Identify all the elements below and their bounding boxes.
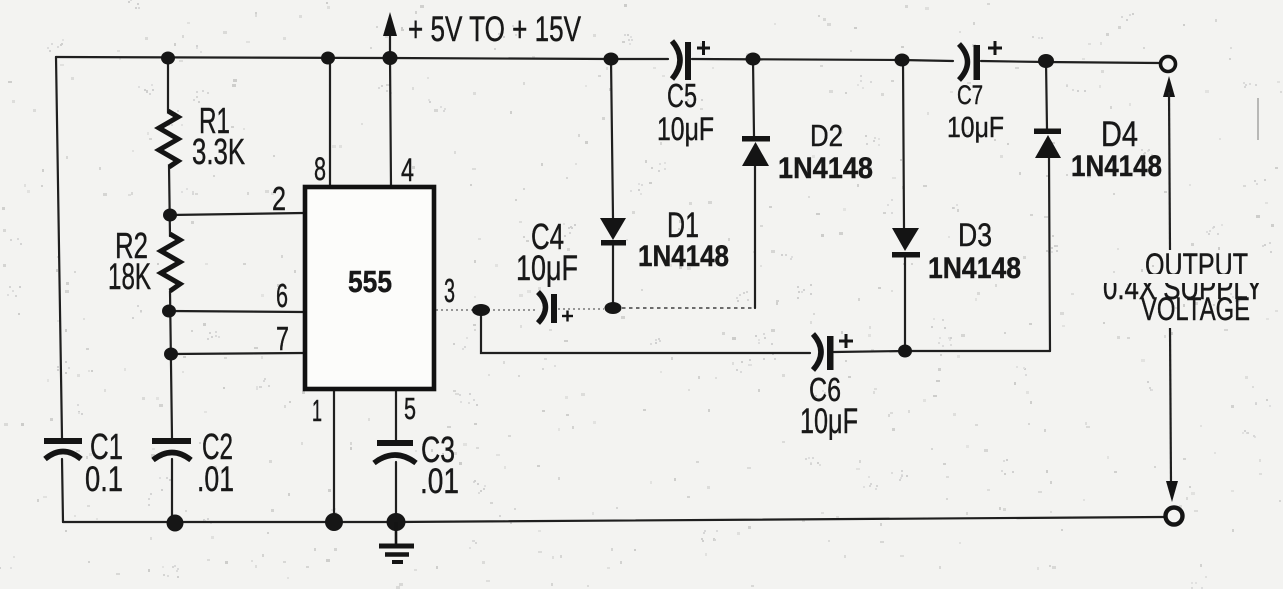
svg-text:C5: C5 [667, 77, 697, 114]
svg-text:8: 8 [314, 151, 326, 187]
svg-text:4: 4 [401, 152, 414, 188]
svg-text:.01: .01 [197, 460, 234, 499]
svg-text:6: 6 [276, 277, 288, 314]
svg-text:D2: D2 [810, 118, 843, 153]
svg-text:555: 555 [348, 264, 392, 299]
svg-text:2: 2 [272, 180, 286, 217]
svg-text:1N4148: 1N4148 [928, 252, 1021, 285]
svg-text:.01: .01 [420, 462, 459, 501]
svg-text:1N4148: 1N4148 [638, 240, 729, 273]
svg-text:D3: D3 [958, 217, 992, 253]
svg-text:VOLTAGE: VOLTAGE [1141, 291, 1250, 327]
svg-text:+ 5V TO + 15V: + 5V TO + 15V [408, 10, 581, 49]
svg-text:3.3K: 3.3K [192, 131, 245, 172]
svg-text:C7: C7 [957, 80, 983, 110]
svg-text:1: 1 [312, 393, 322, 428]
svg-text:3: 3 [444, 272, 455, 309]
svg-text:18K: 18K [108, 256, 151, 297]
svg-text:10μF: 10μF [516, 249, 578, 288]
svg-text:1N4148: 1N4148 [778, 152, 873, 185]
svg-text:C6: C6 [809, 371, 841, 408]
svg-text:10μF: 10μF [657, 111, 714, 147]
svg-text:0.1: 0.1 [85, 460, 123, 499]
svg-text:10μF: 10μF [947, 112, 1004, 144]
svg-text:7: 7 [276, 320, 289, 357]
svg-text:5: 5 [404, 391, 416, 426]
svg-text:1N4148: 1N4148 [1071, 150, 1162, 183]
svg-text:D4: D4 [1101, 115, 1138, 154]
